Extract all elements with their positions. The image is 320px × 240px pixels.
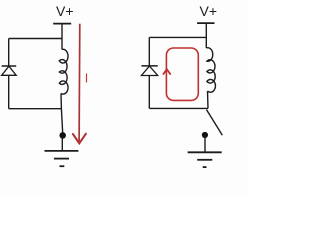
wire: inductor bottom to switch junction (left) [60,94,62,109]
supply terminal bar V+ (right) [197,22,214,24]
node: switch contact dot (left) [59,132,66,139]
wire: V+ bar down to inductor top (left) [61,24,63,50]
wire: dot to ground (right) [204,135,206,152]
current loop (right, red rounded rectangle) [166,48,198,100]
wire: V+ bar down to inductor top (right) [205,23,207,48]
inductor L1 (left) [59,49,68,94]
wire: top horizontal (right circuit) [149,36,206,38]
wire: top horizontal (left circuit) [9,38,62,40]
svg-text:I: I [85,71,88,85]
node: switch contact dot (right) [202,132,208,138]
current loop arrowhead (right, red) [163,69,170,74]
diode D2 cathode bar [141,65,157,67]
wire: diode anode down to bottom rail (right) [148,76,150,109]
inductor L2 (right) [206,48,215,93]
ground symbol (left) [45,151,79,166]
diode D1 triangle [2,66,17,75]
diode D1 cathode bar [2,65,17,67]
supply terminal bar V+ (left) [53,23,71,25]
switch SW1 lever (closed, left) [61,109,62,136]
wire: left vertical down to diode (left circuit) [8,39,10,67]
ground symbol (right) [188,152,222,167]
wire: bottom horizontal (right circuit) [149,107,208,109]
wire: diode anode down to bottom rail (left) [8,75,10,108]
switch SW2 lever (open, right) [207,110,223,136]
current arrow I line (left, red) [78,24,81,142]
wire: inductor bottom to top switch contact (right) [207,91,210,108]
wire: left vertical down to diode (right circuit) [148,37,150,66]
svg-text:V+: V+ [56,3,74,19]
svg-text:V+: V+ [200,3,218,19]
diode D2 triangle [141,66,157,75]
wire: bottom horizontal (left circuit) [9,108,62,110]
wire: dot to ground (left) [61,135,63,150]
current arrow I head (left, red) [73,134,86,144]
